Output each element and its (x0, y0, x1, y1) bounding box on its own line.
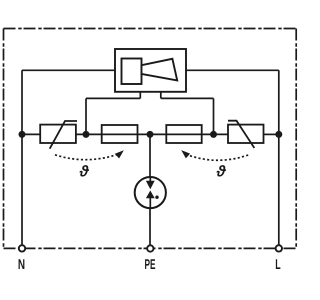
svg-text:N: N (18, 256, 25, 272)
spark gap GDT (circle) (135, 177, 166, 208)
spark gap electrode arrow (down) (149, 177, 151, 182)
label theta (left) (79, 163, 90, 180)
wire: spark gap down to PE terminal (149, 208, 151, 245)
wire: L bus vertical (right) (278, 70, 280, 245)
wire: top horizontal right segment (186, 69, 279, 71)
node D (center junction) (147, 131, 154, 138)
wire: lead horizontal left (86, 97, 140, 99)
loudspeaker horn (142, 59, 178, 81)
svg-text:ϑ: ϑ (216, 163, 227, 180)
terminal PE (147, 245, 153, 251)
node C (right lead junction) (210, 131, 217, 138)
node E (L bus junction) (275, 131, 282, 138)
wire: center node to fuse F2 (through line) (150, 133, 228, 135)
thermal disconnector F1 (left) (102, 125, 138, 143)
temperature action arrow (left, dashed) (55, 150, 124, 159)
wire: alarm box bottom-right lead stub (160, 92, 162, 99)
loudspeaker body (square) (122, 59, 142, 85)
signalling device box U1 (acoustic alarm) (115, 49, 186, 92)
wire: RV1 to fuse F1 (through line) (76, 133, 150, 135)
varistor RV2 (right) (228, 121, 264, 148)
wire: N bus vertical (left) (21, 70, 23, 245)
wire: right lead vertical down to node C (213, 98, 215, 134)
wire: center node down to spark gap (149, 134, 151, 181)
wire: top horizontal left segment (22, 69, 115, 71)
svg-text:ϑ: ϑ (79, 163, 90, 180)
wire: alarm box bottom-left lead stub (139, 92, 141, 99)
svg-text:L: L (275, 256, 281, 272)
label theta (right) (216, 163, 227, 180)
wire: lead horizontal right (161, 97, 214, 99)
node B (left lead junction) (83, 131, 90, 138)
node A (N bus junction) (19, 131, 26, 138)
terminal N (19, 245, 25, 251)
varistor RV1 (left) (40, 121, 77, 149)
thermal disconnector F2 (right) (166, 125, 201, 143)
dash-dot enclosure border (4, 29, 297, 249)
wire: left lead vertical down to node B (85, 98, 87, 134)
wire: RV2 to L bus (264, 133, 279, 135)
temperature action arrow (right, dashed) (181, 150, 248, 160)
terminal L (276, 245, 282, 251)
svg-text:PE: PE (144, 256, 155, 272)
spark gap electrode arrow (up) (149, 198, 151, 209)
spark gap indicator dot (155, 196, 158, 199)
wire: N bus to varistor RV1 (22, 133, 40, 135)
